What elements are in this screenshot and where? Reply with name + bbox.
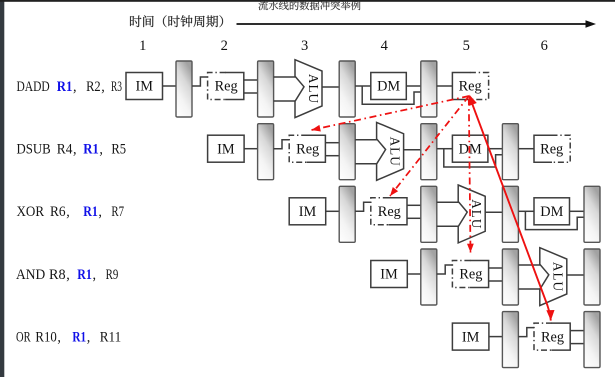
wires ALU inputs (instr 3) xyxy=(437,201,459,203)
svg-text:R8: R8 xyxy=(49,267,66,283)
svg-text:Reg: Reg xyxy=(540,141,563,157)
pipeline latch after EX (instr 1) xyxy=(339,61,355,117)
svg-text:IM: IM xyxy=(217,141,235,157)
svg-text:R7: R7 xyxy=(111,204,124,220)
svg-text:OR: OR xyxy=(16,330,31,346)
instruction label DSUB R4,R1,R5 xyxy=(17,142,127,158)
wire WB Reg input (instr 1) xyxy=(437,85,453,87)
svg-text:R9: R9 xyxy=(106,267,119,283)
pipeline latch after ID (instr 3) xyxy=(421,186,437,242)
wire bypass under DM (instr 1) xyxy=(362,86,421,104)
wire IM1 output xyxy=(163,85,177,87)
svg-text:R3: R3 xyxy=(111,79,122,95)
wire DM output (instr 3) xyxy=(570,210,585,212)
instruction label OR R10,R1,R11 xyxy=(16,330,121,346)
svg-text:,: , xyxy=(101,79,105,95)
svg-text:R4: R4 xyxy=(57,142,73,158)
DM box (instr 3, cycle 6) xyxy=(534,198,570,225)
wire WB Reg input (instr 2) xyxy=(518,148,534,150)
left window edge bar xyxy=(0,0,4,377)
svg-text:Reg: Reg xyxy=(459,267,482,283)
pipeline latch after IF (instr 4) xyxy=(421,249,437,305)
pipeline latch after MEM (instr 2) xyxy=(502,124,518,180)
wires ALU inputs (instr 2) xyxy=(355,139,377,141)
red hazard arrow to AND Reg (vertical dash-dot) xyxy=(469,99,471,253)
wire ALU output (instr 2) xyxy=(404,149,421,151)
wire latch to Reg read jog (instr 3) xyxy=(355,202,371,211)
svg-text:,: , xyxy=(66,267,70,283)
svg-text:R1: R1 xyxy=(83,204,98,220)
slide title 流水线的数据冲突举例 xyxy=(258,1,360,11)
wire DM input (instr 3) xyxy=(518,210,534,212)
wire bypass under DM (instr 3) xyxy=(525,211,584,229)
register file write Reg box (instr 1, cycle 5), dashed right half xyxy=(452,73,470,100)
wire latch to Reg read jog (instr 4) xyxy=(437,265,453,274)
svg-text:ALU: ALU xyxy=(469,199,484,229)
svg-text:,: , xyxy=(66,204,70,220)
svg-text:DM: DM xyxy=(377,79,400,95)
instruction label AND R8,R1,R9 xyxy=(16,267,118,283)
svg-text:IM: IM xyxy=(380,267,398,283)
svg-text:IM: IM xyxy=(299,204,317,220)
svg-text:DSUB: DSUB xyxy=(17,142,51,158)
pipeline latch after EX (instr 3) xyxy=(502,186,518,242)
svg-text:IM: IM xyxy=(136,79,154,95)
register file write Reg box (instr 2, cycle 6), dashed right half xyxy=(534,135,552,162)
svg-text:,: , xyxy=(98,204,102,220)
axis label 时间（时钟周期） xyxy=(130,15,223,27)
ALU (instr 4, cycle 6) xyxy=(540,248,567,306)
svg-text:4: 4 xyxy=(381,38,389,54)
pipeline latch after ID (instr 2) xyxy=(339,124,355,180)
svg-text:Reg: Reg xyxy=(541,329,564,345)
wire latch to Reg read jog (instr 1) xyxy=(192,77,208,86)
pipeline latch after ID (instr 1) xyxy=(258,61,274,117)
svg-text:R5: R5 xyxy=(111,142,126,158)
register file read Reg box (instr 2, cycle 3), dashed left half xyxy=(289,135,307,162)
wire IM4 output xyxy=(407,273,421,275)
wire ALU output (instr 4) xyxy=(567,274,584,276)
svg-text:R6: R6 xyxy=(50,204,66,220)
wires ALU inputs (instr 1) xyxy=(274,76,296,78)
ALU (instr 1, cycle 3) xyxy=(295,60,322,118)
svg-text:,: , xyxy=(93,267,97,283)
instruction label XOR R6,R1,R7 xyxy=(17,204,125,220)
svg-text:Reg: Reg xyxy=(378,204,401,220)
wire DM input (instr 2) xyxy=(437,148,453,150)
red solid arrow DADD WB Reg to OR Reg (double headed) xyxy=(469,96,551,321)
pipeline latch after IF (instr 3) xyxy=(339,186,355,242)
svg-text:ALU: ALU xyxy=(306,74,321,104)
wires Reg read outputs (instr 3) xyxy=(407,204,421,206)
pipeline latch after IF (instr 1) xyxy=(176,61,192,117)
instruction label DADD R1,R2,R3 xyxy=(17,79,123,95)
time axis arrow xyxy=(237,23,589,25)
register file read Reg box (instr 3, cycle 4), dashed left half xyxy=(371,198,389,225)
svg-text:2: 2 xyxy=(221,38,228,54)
svg-text:,: , xyxy=(73,142,77,158)
pipeline latch after EX (instr 4) xyxy=(584,249,600,305)
ALU (instr 2, cycle 4) xyxy=(377,122,404,180)
instruction 2 IM box (IF stage, cycle 2) xyxy=(208,135,245,162)
svg-text:,: , xyxy=(57,330,61,346)
svg-text:5: 5 xyxy=(463,38,470,54)
register file read Reg box (instr 5, cycle 6), dashed left half xyxy=(534,323,552,350)
red hazard arrow to XOR Reg (dash-dot) xyxy=(390,96,469,196)
svg-text:Reg: Reg xyxy=(215,79,238,95)
pipeline latch after MEM (instr 3) xyxy=(584,186,600,242)
wire IM3 output xyxy=(326,210,340,212)
instruction 1 IM box (IF stage, cycle 1) xyxy=(126,73,163,100)
register file read Reg box (instr 4, cycle 5), dashed left half xyxy=(452,261,470,288)
pipeline latch after MEM (instr 1) xyxy=(421,61,437,117)
svg-text:6: 6 xyxy=(541,38,548,54)
instruction 3 IM box (IF stage, cycle 3) xyxy=(289,198,326,225)
svg-text:R1: R1 xyxy=(72,330,86,346)
register file read Reg box (instr 1, cycle 2), dashed left half xyxy=(208,73,226,100)
instruction 5 IM box (IF stage, cycle 5) xyxy=(452,323,489,350)
svg-text:DM: DM xyxy=(540,204,563,220)
svg-text:ALU: ALU xyxy=(551,262,566,292)
svg-text:3: 3 xyxy=(301,38,308,54)
svg-text:AND: AND xyxy=(16,267,45,283)
wires Reg read outputs (instr 4) xyxy=(489,267,503,269)
svg-text:XOR: XOR xyxy=(17,204,45,220)
svg-text:R1: R1 xyxy=(57,79,73,95)
svg-text:1: 1 xyxy=(139,38,146,54)
wire IM2 output xyxy=(244,148,258,150)
svg-text:Reg: Reg xyxy=(296,141,319,157)
svg-text:R1: R1 xyxy=(77,267,92,283)
top window edge line xyxy=(0,0,615,2)
wires Reg read outputs (instr 2) xyxy=(325,142,339,144)
instruction 4 IM box (IF stage, cycle 4) xyxy=(371,261,408,288)
pipeline latch after EX (instr 2) xyxy=(421,124,437,180)
pipeline latch after ID (instr 4) xyxy=(502,249,518,305)
DM box (instr 2, cycle 5) xyxy=(452,135,488,162)
wire ALU output (instr 3) xyxy=(485,211,502,213)
pipeline latch after ID (instr 5) xyxy=(584,312,600,368)
svg-text:R11: R11 xyxy=(100,330,121,346)
pipeline latch after IF (instr 5) xyxy=(502,312,518,368)
wire latch to Reg read jog (instr 2) xyxy=(274,140,290,149)
svg-text:Reg: Reg xyxy=(459,79,482,95)
wires Reg read outputs (instr 1) xyxy=(244,79,258,81)
wire latch to Reg read jog (instr 5) xyxy=(518,328,534,337)
svg-text:R2: R2 xyxy=(86,79,101,95)
wire DM input (instr 1) xyxy=(355,85,371,87)
svg-text:ALU: ALU xyxy=(387,137,402,167)
svg-text:DADD: DADD xyxy=(17,79,50,95)
svg-text:,: , xyxy=(99,142,103,158)
wires Reg read outputs (instr 5) xyxy=(570,330,584,332)
wire ALU output (instr 1) xyxy=(322,86,339,88)
wire IM5 output xyxy=(489,336,503,338)
ALU (instr 3, cycle 5) xyxy=(458,185,485,243)
wire DM output (instr 2) xyxy=(488,148,503,150)
svg-text:IM: IM xyxy=(462,329,480,345)
pipeline latch after IF (instr 2) xyxy=(258,124,274,180)
svg-text:DM: DM xyxy=(459,141,482,157)
wire bypass under DM (instr 2) xyxy=(444,149,503,167)
svg-text:,: , xyxy=(73,79,77,95)
DM box (instr 1, cycle 4) xyxy=(371,73,407,100)
svg-text:,: , xyxy=(87,330,91,346)
wires ALU inputs (instr 4) xyxy=(518,264,540,266)
wire DM output (instr 1) xyxy=(406,85,421,87)
svg-text:R1: R1 xyxy=(83,142,99,158)
red hazard arrow to DSUB Reg (dash-dot) xyxy=(312,96,470,130)
svg-text:R10: R10 xyxy=(35,330,56,346)
